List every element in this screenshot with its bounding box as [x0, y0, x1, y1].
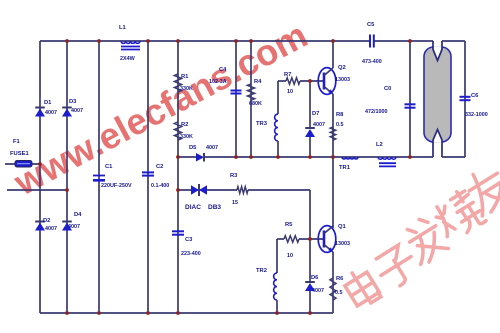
svg-text:D5: D5 [189, 145, 197, 151]
svg-text:D1: D1 [44, 100, 52, 106]
svg-text:C1: C1 [105, 164, 113, 170]
svg-text:C5: C5 [367, 22, 375, 28]
svg-text:C3: C3 [185, 237, 193, 243]
svg-text:D6: D6 [311, 275, 319, 281]
svg-text:4007: 4007 [312, 288, 324, 294]
svg-text:102-3A: 102-3A [209, 79, 227, 85]
svg-text:D7: D7 [312, 111, 319, 117]
svg-text:10: 10 [287, 89, 293, 95]
svg-text:R6: R6 [336, 276, 344, 282]
svg-text:C6: C6 [471, 93, 479, 99]
svg-text:4007: 4007 [45, 226, 57, 232]
svg-text:0.5: 0.5 [336, 122, 344, 128]
svg-text:D3: D3 [69, 99, 77, 105]
svg-text:330K: 330K [180, 134, 193, 140]
svg-text:473-400: 473-400 [362, 59, 382, 65]
svg-text:R7: R7 [284, 72, 291, 78]
svg-text:680K: 680K [249, 101, 262, 107]
svg-text:R8: R8 [336, 112, 344, 118]
svg-text:F1: F1 [13, 139, 21, 145]
svg-text:C2: C2 [156, 164, 163, 170]
svg-text:4007: 4007 [313, 122, 325, 128]
svg-text:472/1000: 472/1000 [365, 109, 387, 115]
svg-text:0.5: 0.5 [335, 290, 343, 296]
svg-text:DB3: DB3 [208, 204, 221, 211]
svg-text:2X4W: 2X4W [120, 56, 136, 62]
svg-text:330K: 330K [180, 86, 193, 92]
svg-text:C4: C4 [219, 67, 227, 73]
svg-text:Q2: Q2 [338, 65, 346, 71]
svg-text:R1: R1 [181, 74, 189, 80]
svg-text:TR3: TR3 [256, 121, 268, 127]
svg-text:TR1: TR1 [339, 165, 351, 171]
svg-text:C0: C0 [384, 86, 391, 92]
svg-text:332-1000: 332-1000 [465, 112, 488, 118]
svg-text:13003: 13003 [335, 241, 350, 247]
svg-text:15: 15 [232, 200, 238, 206]
svg-text:L1: L1 [119, 25, 127, 31]
svg-text:4007: 4007 [71, 108, 83, 114]
svg-text:4007: 4007 [45, 110, 57, 116]
svg-text:4007: 4007 [206, 145, 218, 151]
svg-text:10: 10 [287, 253, 293, 259]
svg-text:Q1: Q1 [338, 224, 347, 230]
svg-text:R2: R2 [181, 122, 188, 128]
svg-text:R4: R4 [254, 79, 262, 85]
svg-text:4007: 4007 [68, 224, 80, 230]
svg-text:D4: D4 [74, 212, 82, 218]
svg-text:DIAC: DIAC [185, 204, 201, 211]
svg-text:0.1-400: 0.1-400 [151, 183, 169, 189]
svg-text:R5: R5 [285, 222, 293, 228]
svg-text:220UF-250V: 220UF-250V [101, 183, 132, 189]
svg-text:FUSE1: FUSE1 [10, 151, 29, 157]
svg-text:D2: D2 [43, 218, 50, 224]
svg-text:13003: 13003 [335, 77, 350, 83]
svg-text:R3: R3 [230, 173, 238, 179]
svg-text:223-400: 223-400 [181, 251, 201, 257]
svg-text:L2: L2 [376, 142, 383, 148]
svg-text:TR2: TR2 [256, 268, 267, 274]
